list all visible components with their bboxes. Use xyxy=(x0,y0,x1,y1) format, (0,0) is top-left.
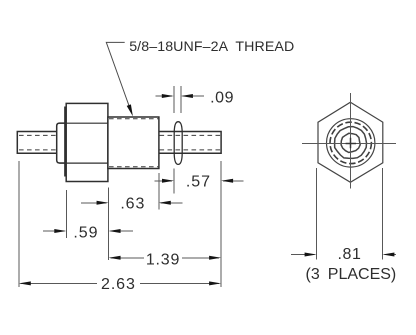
svg-text:.59: .59 xyxy=(73,225,98,242)
svg-text:5/8–18UNF–2A THREAD: 5/8–18UNF–2A THREAD xyxy=(129,39,294,55)
svg-text:.57: .57 xyxy=(186,174,211,191)
svg-text:1.39: 1.39 xyxy=(146,251,180,268)
svg-text:.63: .63 xyxy=(120,195,145,212)
svg-text:(3 PLACES): (3 PLACES) xyxy=(306,266,397,283)
svg-text:2.63: 2.63 xyxy=(101,276,136,293)
svg-text:.81: .81 xyxy=(337,246,361,263)
svg-text:.09: .09 xyxy=(210,90,234,107)
